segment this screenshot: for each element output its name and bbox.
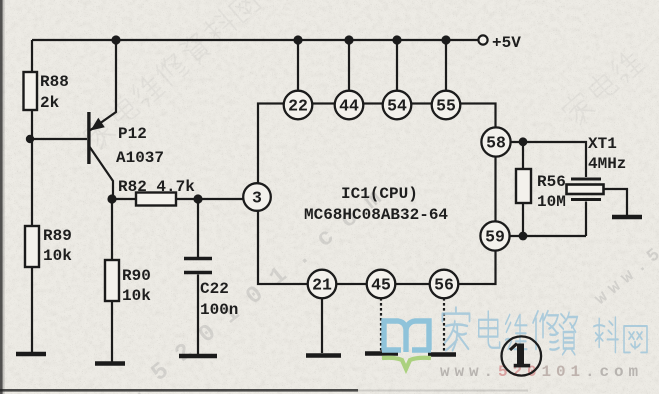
svg-text:R89: R89 — [43, 227, 72, 245]
svg-text:R88: R88 — [40, 73, 69, 91]
svg-text:MC68HC08AB32-64: MC68HC08AB32-64 — [304, 206, 448, 224]
svg-text:10M: 10M — [537, 193, 566, 211]
svg-text:XT1: XT1 — [588, 135, 617, 153]
svg-text:54: 54 — [387, 97, 407, 116]
svg-text:4MHz: 4MHz — [588, 155, 626, 173]
svg-text:R90: R90 — [122, 267, 151, 285]
svg-text:22: 22 — [288, 97, 308, 116]
svg-text:10k: 10k — [122, 287, 151, 305]
svg-text:58: 58 — [486, 134, 506, 153]
svg-text:R56: R56 — [537, 173, 566, 191]
svg-text:100n: 100n — [200, 301, 238, 319]
svg-text:55: 55 — [436, 97, 456, 116]
svg-text:3: 3 — [252, 189, 262, 208]
svg-text:44: 44 — [339, 97, 359, 116]
svg-text:IC1(CPU): IC1(CPU) — [341, 185, 418, 203]
svg-text:10k: 10k — [43, 247, 72, 265]
svg-text:21: 21 — [312, 276, 332, 295]
svg-text:R82 4.7k: R82 4.7k — [118, 178, 195, 196]
svg-text:P12: P12 — [118, 125, 147, 143]
svg-text:A1037: A1037 — [116, 149, 164, 167]
svg-text:2k: 2k — [40, 94, 60, 112]
svg-text:56: 56 — [434, 276, 454, 295]
svg-text:45: 45 — [371, 276, 391, 295]
svg-text:59: 59 — [485, 228, 505, 247]
svg-text:www.520101.com: www.520101.com — [440, 363, 643, 381]
svg-text:C22: C22 — [200, 280, 229, 298]
svg-text:+5V: +5V — [492, 34, 521, 52]
